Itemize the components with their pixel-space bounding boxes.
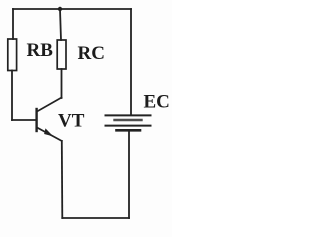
transistor VT base bar xyxy=(35,109,37,131)
svg-text:RB: RB xyxy=(27,40,54,61)
svg-text:RC: RC xyxy=(78,43,105,64)
wire emitter down xyxy=(61,141,64,218)
node junction dot xyxy=(58,7,62,11)
transistor VT collector diagonal xyxy=(37,98,62,112)
battery EC plate short 1 xyxy=(115,119,142,121)
wire base lead xyxy=(12,119,36,121)
battery EC plate long top xyxy=(106,114,151,116)
wire bottom rail xyxy=(62,217,129,219)
wire left branch down to RB xyxy=(12,9,14,39)
svg-text:EC: EC xyxy=(144,92,170,113)
wire RC branch top lead xyxy=(60,9,61,40)
wire RC bottom lead xyxy=(61,69,63,98)
battery EC plate short 2 xyxy=(117,129,141,132)
resistor RC xyxy=(57,40,66,69)
svg-text:VT: VT xyxy=(58,111,85,132)
wire right branch down to battery xyxy=(130,9,132,114)
wire RB bottom lead xyxy=(11,71,13,121)
wire top rail xyxy=(13,8,131,10)
transistor VT emitter diagonal with arrow xyxy=(37,128,62,142)
wire battery bottom lead xyxy=(128,131,130,219)
battery EC plate long middle xyxy=(106,125,151,127)
resistor RB xyxy=(8,39,17,71)
